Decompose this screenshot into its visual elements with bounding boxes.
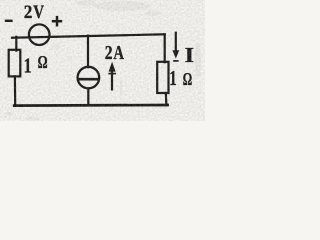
wire: left branch vertical below top-left corner: [15, 37, 17, 51]
resistor R2 1Ω (right branch): [157, 62, 168, 93]
current source I1 internal bar: [79, 78, 99, 81]
scan grain overlay: [0, 0, 205, 121]
wire: bottom horizontal: [14, 104, 167, 107]
wire: right branch vertical from top-right corner to resistor: [164, 35, 166, 63]
polarity minus sign of V1: [5, 20, 13, 22]
current source I1 2A (circle): [78, 67, 100, 89]
wire: middle branch vertical from top wire to current source: [87, 36, 89, 68]
voltage source V1 2V (circle on top wire): [29, 24, 50, 45]
polarity plus sign of V1: [52, 16, 62, 27]
wire: middle branch vertical from current source to bottom wire: [87, 88, 89, 105]
resistor R1 1Ω (left branch): [9, 50, 21, 77]
current direction arrow of I1 (pointing up): [108, 62, 116, 91]
current direction arrow for I (pointing down): [172, 32, 179, 61]
wire: left branch stem to bottom wire: [14, 76, 17, 105]
scan background: [0, 0, 205, 121]
wire: top horizontal from left corner through sources to right corner: [12, 34, 165, 37]
wire: right branch stem to bottom wire: [165, 93, 168, 105]
